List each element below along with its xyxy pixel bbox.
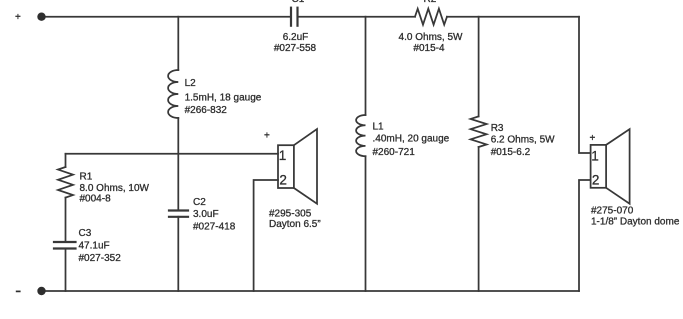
svg-text:#275-070: #275-070	[591, 206, 634, 217]
svg-text:1.5mH, 18 gauge: 1.5mH, 18 gauge	[185, 93, 262, 104]
svg-text:R3: R3	[491, 123, 504, 134]
svg-text:L2: L2	[185, 78, 197, 89]
svg-text:3.0uF: 3.0uF	[193, 209, 219, 220]
svg-text:#027-352: #027-352	[79, 253, 122, 264]
svg-text:1: 1	[279, 148, 287, 163]
svg-text:2: 2	[279, 173, 287, 188]
svg-text:+: +	[590, 133, 596, 144]
svg-text:2: 2	[592, 172, 600, 187]
svg-text:47.1uF: 47.1uF	[79, 241, 110, 252]
svg-text:6.2uF: 6.2uF	[283, 32, 309, 43]
svg-text:6.2 Ohms, 5W: 6.2 Ohms, 5W	[491, 135, 555, 146]
svg-text:+: +	[15, 12, 21, 23]
svg-text:C2: C2	[193, 197, 206, 208]
svg-text:#015-4: #015-4	[413, 43, 445, 54]
svg-text:C1: C1	[292, 0, 305, 5]
svg-text:#295-305: #295-305	[269, 209, 312, 220]
svg-text:1-1/8” Dayton dome: 1-1/8” Dayton dome	[591, 217, 680, 228]
svg-text:1: 1	[591, 148, 599, 163]
svg-text:Dayton 6.5”: Dayton 6.5”	[269, 219, 321, 230]
svg-text:#260-721: #260-721	[373, 147, 416, 158]
svg-text:C3: C3	[79, 228, 92, 239]
svg-text:#266-832: #266-832	[185, 105, 228, 116]
svg-text:4.0 Ohms, 5W: 4.0 Ohms, 5W	[399, 32, 463, 43]
svg-text:R2: R2	[424, 0, 437, 5]
svg-text:#027-558: #027-558	[274, 43, 317, 54]
svg-text:R1: R1	[80, 172, 93, 183]
svg-text:+: +	[264, 131, 270, 142]
svg-text:#015-6.2: #015-6.2	[491, 147, 531, 158]
svg-text:8.0 Ohms, 10W: 8.0 Ohms, 10W	[80, 183, 150, 194]
svg-text:#004-8: #004-8	[80, 194, 112, 205]
svg-text:L1: L1	[373, 122, 385, 133]
svg-text:#027-418: #027-418	[193, 222, 236, 233]
svg-text:.40mH, 20 gauge: .40mH, 20 gauge	[373, 134, 450, 145]
